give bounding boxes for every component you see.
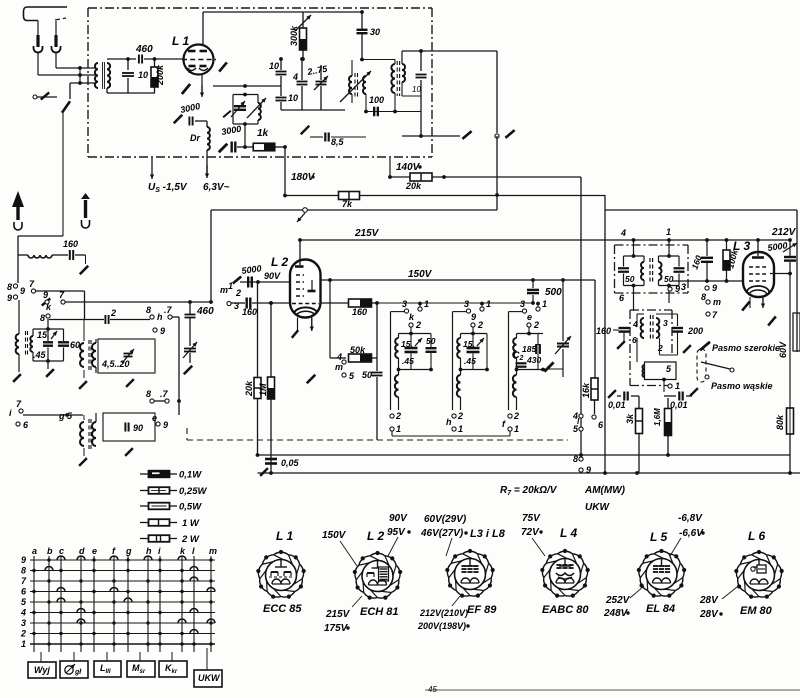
- svg-text:10: 10: [412, 85, 421, 94]
- svg-text:f: f: [112, 546, 116, 556]
- svg-text:6: 6: [619, 293, 625, 303]
- svg-text:f: f: [502, 419, 506, 429]
- svg-text:2: 2: [513, 411, 519, 421]
- svg-text:m: m: [220, 285, 228, 295]
- svg-text:15.: 15.: [37, 330, 50, 340]
- svg-text:2: 2: [477, 320, 483, 330]
- svg-text:L 3: L 3: [733, 239, 750, 253]
- svg-text:4: 4: [632, 319, 638, 329]
- svg-text:430: 430: [526, 355, 541, 365]
- svg-text:c: c: [59, 546, 64, 556]
- svg-text:5000: 5000: [241, 263, 262, 276]
- svg-text:20k: 20k: [244, 380, 254, 397]
- svg-text:3k: 3k: [625, 413, 635, 424]
- svg-text:Dr: Dr: [190, 133, 200, 143]
- svg-text:60: 60: [70, 340, 80, 350]
- svg-text:L 5: L 5: [650, 530, 667, 544]
- svg-text:a: a: [32, 546, 37, 556]
- svg-text:3: 3: [402, 299, 407, 309]
- svg-text:215V: 215V: [354, 228, 380, 239]
- svg-text:2: 2: [395, 411, 401, 421]
- svg-text:1: 1: [675, 381, 680, 391]
- svg-text:160: 160: [242, 307, 257, 317]
- svg-text:L 2: L 2: [367, 529, 384, 543]
- svg-text:100: 100: [369, 95, 384, 105]
- svg-text:1,6M: 1,6M: [653, 408, 662, 426]
- svg-text:L 4: L 4: [560, 526, 577, 540]
- svg-text:460: 460: [135, 44, 153, 55]
- svg-text:160: 160: [689, 254, 703, 271]
- svg-text:150V: 150V: [322, 530, 347, 541]
- svg-text:gł: gł: [74, 669, 82, 676]
- svg-text:d: d: [79, 546, 85, 556]
- svg-text:L 1: L 1: [172, 34, 189, 48]
- svg-text:8: 8: [7, 282, 12, 292]
- svg-text:m: m: [335, 362, 343, 372]
- svg-text:R7 = 20kΩ/V: R7 = 20kΩ/V: [500, 485, 558, 497]
- svg-text:EL 84: EL 84: [646, 603, 675, 615]
- svg-text:6: 6: [21, 587, 27, 597]
- svg-text:0,25W: 0,25W: [179, 486, 207, 497]
- svg-text:8: 8: [40, 313, 45, 323]
- svg-text:460: 460: [196, 306, 214, 317]
- svg-text:i: i: [9, 408, 12, 418]
- svg-text:0,05: 0,05: [281, 458, 300, 468]
- svg-text:2: 2: [235, 288, 241, 298]
- svg-text:200k: 200k: [155, 64, 165, 86]
- svg-text:0,5W: 0,5W: [179, 502, 202, 513]
- svg-text:h: h: [157, 312, 163, 322]
- svg-text:k: k: [46, 302, 52, 312]
- svg-text:ECC 85: ECC 85: [263, 603, 302, 615]
- svg-text:8: 8: [701, 292, 706, 302]
- svg-text:9: 9: [712, 283, 717, 293]
- svg-text:200: 200: [687, 326, 703, 336]
- svg-text:US -1,5V: US -1,5V: [148, 182, 188, 194]
- svg-text:4: 4: [292, 72, 298, 82]
- svg-text:6: 6: [23, 420, 29, 430]
- svg-text:7: 7: [29, 279, 35, 289]
- svg-text:215V: 215V: [325, 609, 351, 620]
- svg-text:1: 1: [542, 299, 547, 309]
- svg-text:9: 9: [160, 326, 165, 336]
- svg-text:160: 160: [596, 326, 611, 336]
- svg-text:.45: .45: [33, 350, 47, 360]
- svg-text:3: 3: [681, 282, 686, 292]
- svg-text:9: 9: [586, 465, 591, 475]
- svg-text:5: 5: [349, 371, 355, 381]
- svg-text:1: 1: [228, 281, 233, 291]
- svg-text:16k: 16k: [581, 382, 591, 398]
- svg-text:300k: 300k: [289, 25, 299, 46]
- svg-text:2: 2: [533, 320, 539, 330]
- svg-text:10: 10: [138, 70, 148, 80]
- svg-text:e: e: [527, 312, 532, 322]
- svg-text:1 W: 1 W: [182, 518, 200, 529]
- svg-text:95V: 95V: [387, 527, 406, 538]
- svg-text:30: 30: [370, 27, 380, 37]
- svg-text:4: 4: [20, 608, 26, 618]
- svg-text:200V(198V): 200V(198V): [417, 621, 466, 631]
- svg-text:8: 8: [146, 305, 151, 315]
- svg-text:1: 1: [514, 424, 519, 434]
- svg-text:.7: .7: [164, 305, 173, 315]
- svg-text:AM(MW): AM(MW): [584, 485, 626, 496]
- svg-text:.45: .45: [402, 356, 414, 366]
- svg-text:1M: 1M: [258, 383, 268, 396]
- svg-text:252V: 252V: [605, 595, 631, 606]
- svg-text:4: 4: [620, 228, 626, 238]
- svg-text:46V(27V): 46V(27V): [420, 528, 464, 539]
- svg-text:-6,8V: -6,8V: [678, 513, 703, 524]
- svg-text:1: 1: [424, 299, 429, 309]
- svg-text:90V: 90V: [264, 271, 281, 281]
- svg-text:EM 80: EM 80: [740, 605, 773, 617]
- svg-text:b: b: [47, 546, 53, 556]
- svg-text:8: 8: [21, 566, 26, 576]
- svg-text:e: e: [92, 546, 97, 556]
- svg-text:h: h: [446, 417, 452, 427]
- svg-text:9: 9: [675, 284, 680, 294]
- svg-text:9: 9: [20, 286, 25, 296]
- svg-text:4,5..20: 4,5..20: [101, 359, 130, 369]
- svg-text:l: l: [192, 546, 195, 556]
- svg-text:g: g: [125, 546, 132, 556]
- svg-text:150V: 150V: [408, 269, 433, 280]
- svg-text:160: 160: [63, 239, 78, 249]
- svg-text:248V: 248V: [603, 608, 629, 619]
- svg-text:2: 2: [20, 629, 26, 639]
- svg-text:9: 9: [471, 312, 476, 322]
- svg-text:28V: 28V: [699, 609, 719, 620]
- svg-text:5: 5: [21, 597, 27, 607]
- svg-text:0,01: 0,01: [670, 400, 688, 410]
- svg-text:L3 i L8: L3 i L8: [470, 528, 506, 540]
- svg-text:1: 1: [458, 424, 463, 434]
- svg-text:m: m: [209, 546, 217, 556]
- svg-text:9: 9: [7, 293, 12, 303]
- svg-text:50: 50: [625, 274, 635, 284]
- svg-text:8: 8: [573, 454, 578, 464]
- svg-text:Pasmo szerokie: Pasmo szerokie: [712, 343, 780, 353]
- svg-text:EABC 80: EABC 80: [542, 604, 589, 616]
- svg-text:212V(210V): 212V(210V): [419, 608, 468, 618]
- svg-text:160: 160: [352, 307, 367, 317]
- svg-text:1k: 1k: [257, 128, 269, 139]
- svg-text:7: 7: [16, 399, 22, 409]
- svg-text:EF 89: EF 89: [467, 604, 497, 616]
- svg-text:72V: 72V: [521, 527, 540, 538]
- svg-text:90: 90: [133, 423, 143, 433]
- svg-text:80k: 80k: [775, 414, 785, 430]
- svg-text:Pasmo wąskie: Pasmo wąskie: [711, 381, 773, 391]
- svg-text:4: 4: [336, 352, 342, 362]
- svg-text:1: 1: [486, 299, 491, 309]
- svg-text:e: e: [152, 413, 157, 423]
- svg-text:0,01: 0,01: [608, 400, 626, 410]
- svg-text:9: 9: [43, 290, 48, 300]
- svg-text:Wyj: Wyj: [34, 665, 50, 675]
- svg-text:1: 1: [666, 227, 671, 237]
- svg-text:k: k: [180, 546, 186, 556]
- svg-text:28V: 28V: [699, 595, 719, 606]
- svg-text:175V: 175V: [324, 623, 349, 634]
- svg-text:7: 7: [712, 310, 718, 320]
- svg-text:2 W: 2 W: [181, 534, 200, 545]
- svg-text:2..75: 2..75: [306, 63, 329, 77]
- svg-text:2: 2: [457, 411, 463, 421]
- svg-text:7: 7: [21, 576, 27, 586]
- svg-text:h: h: [146, 546, 152, 556]
- svg-text:UKW: UKW: [198, 673, 221, 683]
- svg-text:3: 3: [21, 618, 26, 628]
- svg-text:8: 8: [146, 389, 151, 399]
- svg-text:1: 1: [21, 639, 26, 649]
- svg-text:50: 50: [426, 336, 436, 346]
- svg-text:75V: 75V: [522, 513, 541, 524]
- svg-text:212V: 212V: [771, 227, 797, 238]
- svg-text:.45: .45: [464, 356, 476, 366]
- svg-text:L 6: L 6: [748, 529, 765, 543]
- svg-text:ECH 81: ECH 81: [360, 606, 399, 618]
- svg-text:m: m: [713, 297, 721, 307]
- svg-text:50: 50: [664, 274, 674, 284]
- svg-text:8,5: 8,5: [331, 137, 345, 147]
- svg-text:0,1W: 0,1W: [179, 470, 202, 481]
- svg-text:3000: 3000: [179, 101, 201, 115]
- svg-text:2: 2: [415, 320, 421, 330]
- svg-text:-6,6V: -6,6V: [679, 528, 704, 539]
- svg-text:185: 185: [522, 344, 536, 354]
- svg-text:L 1: L 1: [276, 529, 293, 543]
- svg-text:3: 3: [464, 299, 469, 309]
- svg-text:3000: 3000: [221, 124, 242, 137]
- svg-text:3: 3: [663, 318, 668, 328]
- svg-text:i: i: [158, 546, 161, 556]
- svg-text:9: 9: [163, 420, 168, 430]
- svg-text:60V(29V): 60V(29V): [424, 514, 467, 525]
- svg-text:6: 6: [598, 420, 604, 430]
- svg-text:9: 9: [21, 555, 26, 565]
- svg-text:5: 5: [666, 364, 672, 374]
- svg-text:k: k: [409, 312, 415, 322]
- svg-text:6: 6: [632, 335, 637, 345]
- svg-text:7k: 7k: [342, 199, 353, 209]
- svg-text:l: l: [577, 417, 580, 426]
- svg-text:6,3V~: 6,3V~: [203, 182, 230, 193]
- svg-text:90V: 90V: [389, 513, 408, 524]
- svg-text:.7: .7: [160, 389, 169, 399]
- svg-text:1: 1: [396, 424, 401, 434]
- svg-text:10: 10: [269, 61, 279, 71]
- svg-text:10: 10: [288, 93, 298, 103]
- svg-text:3: 3: [520, 299, 525, 309]
- svg-text:50k: 50k: [350, 345, 366, 355]
- svg-text:L 2: L 2: [271, 255, 288, 269]
- svg-text:2: 2: [110, 308, 116, 318]
- svg-text:50: 50: [362, 370, 372, 380]
- svg-text:UKW: UKW: [585, 502, 610, 513]
- svg-text:20k: 20k: [405, 181, 422, 191]
- svg-text:140V: 140V: [396, 162, 421, 173]
- svg-text:45: 45: [428, 685, 437, 693]
- svg-text:500: 500: [545, 287, 562, 298]
